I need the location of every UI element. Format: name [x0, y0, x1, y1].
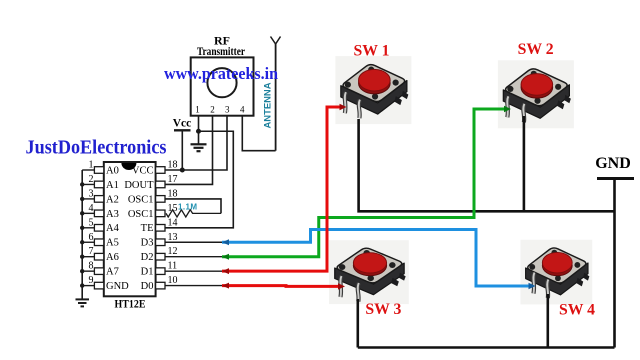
svg-text:8: 8	[89, 261, 94, 272]
pin 7 A6	[80, 246, 119, 263]
pin 11 D1	[141, 261, 177, 278]
svg-text:4: 4	[89, 203, 94, 214]
svg-text:OSC1: OSC1	[128, 194, 154, 205]
svg-text:D3: D3	[141, 238, 154, 249]
pin 12 D2	[141, 246, 178, 263]
svg-text:13: 13	[168, 232, 178, 243]
pin 17 DOUT	[124, 174, 177, 191]
wire VCC pin18 to transmitter pin3	[165, 116, 227, 170]
pin 9 GND	[80, 275, 129, 292]
svg-text:2: 2	[89, 174, 94, 185]
GND rail bar	[597, 177, 634, 180]
pin 2 A1	[80, 174, 119, 191]
pin 5 A4	[80, 217, 120, 234]
pin 15 OSC1	[128, 203, 178, 220]
ground (IC bus)	[76, 299, 90, 306]
svg-text:SW 4: SW 4	[559, 301, 595, 318]
wire GND vertical	[613, 179, 616, 348]
svg-text:7: 7	[89, 246, 94, 257]
pin 6 A5	[80, 232, 119, 249]
pin 1 A0	[82, 160, 119, 177]
switch SW2 legs	[507, 96, 524, 122]
wire SW1/SW2 common rail	[359, 119, 615, 211]
svg-text:3: 3	[225, 105, 230, 115]
wire SW3 to bottom rail	[356, 299, 359, 348]
svg-text:Vcc: Vcc	[173, 118, 192, 130]
pin 10 D0	[141, 275, 178, 292]
svg-text:1: 1	[89, 160, 94, 171]
IC U1 HT12E body	[104, 162, 156, 296]
wire D0 pin10 stub	[165, 285, 222, 287]
wire D1 red to SW1	[222, 107, 342, 271]
svg-text:1: 1	[195, 105, 200, 115]
green arrow at SW2	[504, 106, 511, 112]
wire D1 pin11 stub	[165, 270, 222, 272]
switch SW1	[335, 56, 411, 124]
svg-text:HT12E: HT12E	[115, 296, 146, 310]
svg-text:OSC1: OSC1	[128, 209, 154, 220]
svg-text:D1: D1	[141, 267, 154, 278]
wire SW2 to rail	[523, 116, 526, 211]
wire D3 pin13 stub	[165, 241, 222, 243]
wire bottom ground rail	[358, 346, 615, 349]
resistor R1 OSC loop	[165, 199, 221, 213]
svg-text:SW 1: SW 1	[354, 42, 390, 59]
svg-text:GND: GND	[595, 155, 631, 172]
RF transmitter module U2	[191, 57, 254, 115]
red arrow at pin11	[222, 268, 229, 274]
wire D2 green to SW2	[222, 109, 507, 257]
svg-text:D2: D2	[141, 252, 154, 263]
wire SW4 to bottom rail	[546, 294, 549, 348]
switch SW3 legs	[340, 276, 358, 302]
svg-text:VCC: VCC	[132, 165, 154, 176]
svg-text:GND: GND	[106, 281, 129, 292]
blue arrow at pin13	[222, 239, 229, 245]
svg-text:2: 2	[210, 105, 215, 115]
svg-text:12: 12	[168, 246, 178, 257]
blue arrow at SW4	[529, 283, 536, 289]
switch SW4 legs	[533, 273, 548, 299]
svg-text:4: 4	[240, 105, 245, 115]
left address bus wire	[81, 170, 83, 299]
svg-text:A7: A7	[106, 267, 119, 278]
pin 13 D3	[141, 232, 178, 249]
svg-text:A5: A5	[106, 238, 119, 249]
switch SW3	[329, 240, 409, 304]
svg-text:D0: D0	[141, 281, 154, 292]
svg-text:6: 6	[89, 232, 94, 243]
svg-text:A3: A3	[106, 209, 119, 220]
pin 14 TE	[141, 217, 178, 234]
wire DOUT pin17 to transmitter pin2	[165, 116, 213, 184]
svg-text:15: 15	[168, 203, 178, 214]
pin 16 OSC1	[128, 188, 178, 205]
wire D3 blue to SW4	[222, 230, 531, 287]
svg-text:10: 10	[168, 275, 178, 286]
svg-text:TE: TE	[141, 223, 154, 234]
antenna	[271, 37, 281, 151]
svg-text:11: 11	[168, 261, 178, 272]
wire transmitter pin4 to antenna	[242, 116, 275, 151]
svg-text:A0: A0	[106, 165, 119, 176]
pin 4 A3	[80, 203, 119, 220]
wire transmitter pin1 down	[198, 116, 200, 144]
svg-text:A6: A6	[106, 252, 119, 263]
Vcc power symbol	[173, 118, 192, 171]
switch SW1 legs	[345, 92, 360, 118]
pin 18 VCC	[132, 160, 178, 177]
switch SW2	[498, 60, 574, 128]
svg-text:Transmitter: Transmitter	[197, 46, 245, 58]
svg-text:A2: A2	[106, 194, 119, 205]
red arrow at SW1	[340, 104, 347, 110]
svg-text:SW 2: SW 2	[518, 41, 554, 58]
svg-text:18: 18	[168, 188, 178, 199]
wire D2 pin12 stub	[165, 256, 222, 258]
pin 8 A7	[80, 261, 119, 278]
svg-text:3: 3	[89, 188, 94, 199]
svg-text:ANTENNA: ANTENNA	[263, 82, 273, 129]
green arrow at pin12	[222, 254, 229, 260]
svg-text:14: 14	[168, 217, 178, 228]
svg-text:JustDoElectronics: JustDoElectronics	[26, 137, 167, 159]
svg-text:A1: A1	[106, 180, 119, 191]
switch SW4	[520, 240, 592, 305]
svg-text:17: 17	[168, 174, 178, 185]
svg-text:SW 3: SW 3	[365, 301, 401, 318]
red arrow at pin10	[222, 283, 229, 289]
red arrow at SW3	[338, 283, 345, 289]
wire TE pin14 to transmitter pin1 ground	[165, 131, 233, 228]
ground (transmitter)	[191, 144, 207, 151]
svg-text:5: 5	[89, 217, 94, 228]
svg-text:9: 9	[89, 275, 94, 286]
junction Vcc/VCC pin18	[180, 168, 185, 173]
pin 3 A2	[80, 188, 119, 205]
svg-text:www.prateeks.in: www.prateeks.in	[164, 64, 279, 83]
svg-text:A4: A4	[106, 223, 120, 234]
svg-text:18: 18	[168, 160, 178, 171]
junction pin1/TE/ground	[196, 129, 201, 134]
wire D0 red to SW3	[222, 284, 340, 288]
svg-text:1.1M: 1.1M	[178, 203, 197, 212]
svg-text:DOUT: DOUT	[124, 180, 154, 191]
